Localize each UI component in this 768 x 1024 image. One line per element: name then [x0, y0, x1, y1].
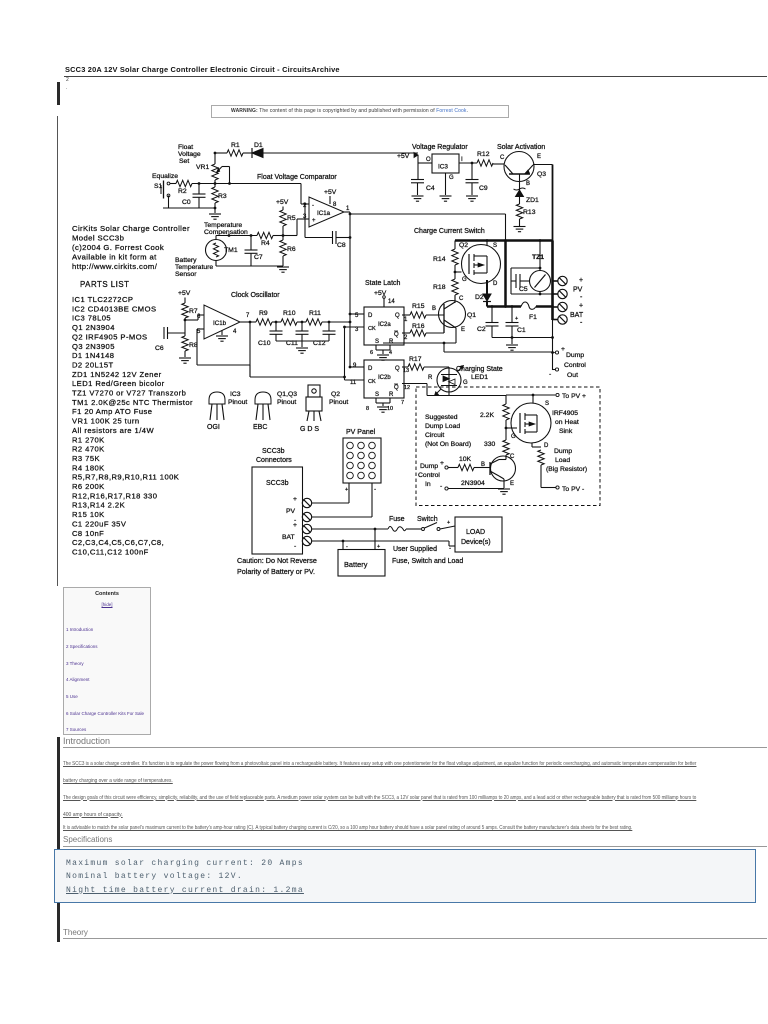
svg-text:R9: R9	[259, 310, 268, 317]
svg-text:CK: CK	[368, 379, 376, 385]
svg-text:8: 8	[333, 202, 337, 208]
svg-text:IC2b: IC2b	[378, 375, 391, 381]
svg-text:R1: R1	[231, 142, 240, 149]
svg-text:BAT: BAT	[282, 534, 295, 541]
svg-text:R: R	[389, 339, 394, 345]
svg-text:PV Panel: PV Panel	[346, 429, 376, 436]
svg-text:R2: R2	[178, 188, 187, 195]
svg-text:C2: C2	[477, 326, 486, 333]
svg-text:4: 4	[389, 350, 392, 356]
svg-text:R13: R13	[523, 209, 536, 216]
svg-text:C8: C8	[337, 242, 346, 249]
svg-text:+5V: +5V	[178, 290, 191, 297]
svg-text:Equalize: Equalize	[152, 173, 178, 180]
svg-text:D2 20L15T: D2 20L15T	[72, 360, 114, 369]
svg-text:13: 13	[403, 368, 409, 374]
svg-text:IC2 CD4013BE CMOS: IC2 CD4013BE CMOS	[72, 304, 156, 313]
svg-text:Q2: Q2	[459, 242, 468, 249]
svg-text:TZ1: TZ1	[532, 254, 544, 261]
svg-text:+: +	[293, 522, 297, 529]
svg-text:+: +	[345, 487, 348, 493]
svg-text:R12,R16,R17,R18 330: R12,R16,R17,R18 330	[72, 491, 157, 500]
svg-text:-: -	[580, 294, 583, 301]
svg-text:R4: R4	[261, 240, 270, 247]
svg-text:S: S	[493, 243, 497, 249]
svg-text:C1 220uF 35V: C1 220uF 35V	[72, 519, 127, 528]
svg-text:IC1 TLC2272CP: IC1 TLC2272CP	[72, 295, 133, 304]
svg-text:C7: C7	[254, 254, 263, 261]
svg-text:7: 7	[246, 313, 250, 319]
svg-text:User Supplied: User Supplied	[393, 546, 437, 553]
svg-text:-: -	[549, 371, 551, 378]
svg-text:2.2K: 2.2K	[480, 412, 494, 419]
svg-text:Clock Oscillator: Clock Oscillator	[231, 292, 280, 299]
svg-text:PV: PV	[286, 508, 296, 515]
svg-text:Q: Q	[395, 313, 400, 319]
svg-text:PARTS LIST: PARTS LIST	[80, 280, 129, 289]
svg-text:S: S	[375, 339, 379, 345]
svg-text:1: 1	[404, 317, 408, 323]
svg-text:LOAD: LOAD	[466, 529, 485, 536]
svg-text:CK: CK	[368, 326, 376, 332]
svg-text:R11: R11	[309, 310, 321, 317]
svg-text:Dump: Dump	[554, 448, 572, 455]
svg-text:Dump Load: Dump Load	[425, 423, 460, 430]
svg-text:BAT: BAT	[570, 312, 584, 319]
svg-text:Control: Control	[418, 472, 440, 479]
svg-text:Connectors: Connectors	[256, 457, 292, 464]
svg-text:+: +	[579, 277, 583, 284]
svg-text:R16: R16	[412, 323, 425, 330]
svg-text:Pinout: Pinout	[277, 399, 296, 406]
svg-text:S: S	[545, 401, 549, 407]
svg-text:R6 200K: R6 200K	[72, 482, 105, 491]
svg-text:Fuse, Switch and Load: Fuse, Switch and Load	[392, 558, 463, 565]
svg-text:Sink: Sink	[559, 428, 573, 435]
svg-text:IC1a: IC1a	[317, 210, 331, 217]
svg-text:5: 5	[197, 329, 201, 335]
svg-text:G: G	[462, 277, 467, 283]
svg-text:D: D	[368, 313, 373, 319]
svg-text:Fuse: Fuse	[389, 516, 405, 523]
svg-text:R: R	[389, 392, 394, 398]
svg-text:G: G	[449, 175, 454, 181]
svg-text:+: +	[293, 496, 297, 503]
svg-text:LED1: LED1	[471, 374, 488, 381]
svg-text:Battery: Battery	[344, 560, 368, 569]
svg-text:(Big Resistor): (Big Resistor)	[546, 466, 587, 473]
svg-text:-: -	[374, 486, 376, 493]
svg-text:D1 1N4148: D1 1N4148	[72, 351, 114, 360]
svg-text:330: 330	[484, 441, 496, 448]
svg-text:R5: R5	[287, 215, 296, 222]
svg-text:CirKits Solar Charge Controlle: CirKits Solar Charge Controller	[72, 224, 190, 233]
svg-text:C2,C3,C4,C5,C6,C7,C8,: C2,C3,C4,C5,C6,C7,C8,	[72, 538, 164, 547]
svg-text:R13,R14 2.2K: R13,R14 2.2K	[72, 501, 125, 510]
svg-text:+: +	[377, 544, 380, 550]
svg-text:Dump: Dump	[420, 463, 438, 470]
svg-text:R3: R3	[218, 193, 227, 200]
svg-text:Q: Q	[394, 332, 399, 338]
svg-text:Out: Out	[567, 372, 578, 379]
svg-text:10K: 10K	[459, 456, 472, 463]
svg-text:-: -	[580, 320, 583, 327]
svg-text:ZD1: ZD1	[526, 197, 539, 204]
svg-text:R5,R7,R8,R9,R10,R11 100K: R5,R7,R8,R9,R10,R11 100K	[72, 473, 179, 482]
svg-text:12: 12	[404, 385, 410, 391]
svg-text:G: G	[463, 380, 468, 386]
svg-text:+5V: +5V	[276, 199, 289, 206]
svg-text:R1 270K: R1 270K	[72, 435, 105, 444]
svg-text:PV: PV	[573, 287, 583, 294]
svg-text:+: +	[561, 346, 565, 353]
svg-text:Battery: Battery	[175, 257, 197, 264]
svg-text:TM1: TM1	[224, 247, 238, 254]
svg-text:SCC3b: SCC3b	[262, 448, 285, 455]
svg-text:VR1: VR1	[196, 164, 209, 171]
svg-text:(c)2004 G. Forrest Cook: (c)2004 G. Forrest Cook	[72, 243, 164, 252]
svg-text:Q: Q	[395, 366, 400, 372]
svg-text:+: +	[440, 460, 444, 467]
svg-text:-: -	[440, 483, 442, 490]
svg-text:1: 1	[346, 206, 350, 212]
svg-text:Compensation: Compensation	[204, 229, 248, 236]
svg-text:Q1: Q1	[467, 312, 476, 319]
svg-text:IC3 78L05: IC3 78L05	[72, 314, 111, 323]
svg-text:Temperature: Temperature	[175, 264, 213, 271]
svg-text:Dump: Dump	[566, 352, 584, 359]
svg-text:B: B	[432, 306, 436, 312]
svg-text:ZD1 1N5242 12V Zener: ZD1 1N5242 12V Zener	[72, 370, 162, 379]
svg-text:8: 8	[366, 406, 369, 412]
svg-text:-: -	[312, 203, 314, 209]
svg-text:EBC: EBC	[253, 424, 267, 431]
svg-text:I: I	[461, 157, 463, 163]
svg-text:Q2: Q2	[331, 391, 340, 398]
svg-text:D2: D2	[475, 294, 484, 301]
svg-text:11: 11	[350, 380, 357, 386]
svg-text:Sensor: Sensor	[175, 271, 197, 278]
svg-text:G D S: G D S	[300, 426, 319, 433]
svg-text:To PV +: To PV +	[562, 393, 586, 400]
svg-text:Set: Set	[179, 158, 189, 165]
svg-text:Voltage Regulator: Voltage Regulator	[412, 144, 468, 151]
svg-text:R10: R10	[283, 310, 296, 317]
svg-text:C9: C9	[479, 185, 488, 192]
svg-text:C: C	[510, 454, 515, 460]
svg-text:R2 470K: R2 470K	[72, 445, 105, 454]
svg-text:G: G	[511, 434, 516, 440]
svg-text:TM1 2.0K@25c NTC Thermistor: TM1 2.0K@25c NTC Thermistor	[72, 398, 193, 407]
svg-text:State Latch: State Latch	[365, 280, 401, 287]
svg-text:R18: R18	[433, 284, 446, 291]
svg-text:VR1 100K 25 turn: VR1 100K 25 turn	[72, 417, 140, 426]
svg-text:C1: C1	[517, 327, 526, 334]
svg-text:E: E	[461, 327, 465, 333]
svg-text:R4 180K: R4 180K	[72, 463, 105, 472]
svg-text:To PV -: To PV -	[562, 486, 584, 493]
svg-text:C8 10nF: C8 10nF	[72, 529, 104, 538]
svg-text:6: 6	[370, 350, 373, 356]
svg-text:+: +	[447, 520, 450, 526]
svg-text:Polarity of Battery or PV.: Polarity of Battery or PV.	[237, 567, 315, 576]
svg-text:Q3 2N3905: Q3 2N3905	[72, 342, 115, 351]
svg-text:D1: D1	[254, 142, 263, 149]
svg-text:D: D	[493, 281, 498, 287]
svg-text:2: 2	[404, 335, 408, 341]
svg-text:IRF4905: IRF4905	[552, 410, 578, 417]
svg-text:Switch: Switch	[417, 516, 438, 523]
svg-text:R6: R6	[287, 246, 296, 253]
svg-text:Charge Current Switch: Charge Current Switch	[414, 228, 485, 235]
svg-text:R14: R14	[433, 256, 446, 263]
svg-text:http://www.cirkits.com/: http://www.cirkits.com/	[72, 262, 158, 271]
svg-text:-: -	[294, 543, 296, 550]
svg-text:D: D	[368, 366, 373, 372]
svg-text:+: +	[515, 316, 518, 322]
svg-text:O: O	[426, 157, 431, 163]
svg-text:R: R	[428, 375, 433, 381]
svg-text:10: 10	[387, 406, 393, 412]
svg-text:F1: F1	[529, 314, 537, 321]
svg-text:C: C	[500, 155, 505, 161]
svg-text:3: 3	[355, 327, 359, 333]
svg-text:IC3: IC3	[438, 164, 448, 171]
svg-text:Circuit: Circuit	[425, 432, 444, 439]
svg-text:C10: C10	[258, 340, 271, 347]
svg-text:C4: C4	[426, 185, 435, 192]
svg-text:on Heat: on Heat	[555, 419, 579, 426]
svg-text:Q2 IRF4905 P-MOS: Q2 IRF4905 P-MOS	[72, 332, 148, 341]
svg-text:Charging State: Charging State	[456, 366, 503, 373]
svg-text:R12: R12	[477, 151, 490, 158]
svg-text:OGI: OGI	[207, 424, 220, 431]
svg-text:Load: Load	[555, 457, 570, 464]
svg-text:C6: C6	[155, 345, 164, 352]
svg-text:Control: Control	[564, 362, 586, 369]
svg-text:Float Voltage Comparator: Float Voltage Comparator	[257, 174, 337, 181]
svg-text:IC2a: IC2a	[378, 322, 391, 328]
svg-text:R3 75K: R3 75K	[72, 454, 100, 463]
svg-text:B: B	[526, 181, 530, 187]
svg-text:7: 7	[401, 400, 404, 406]
svg-text:Suggested: Suggested	[425, 414, 458, 421]
svg-text:Float: Float	[178, 144, 193, 151]
svg-text:Temperature: Temperature	[204, 222, 242, 229]
svg-text:C: C	[459, 296, 464, 302]
svg-text:In: In	[425, 481, 431, 488]
svg-text:Q1 2N3904: Q1 2N3904	[72, 323, 115, 332]
svg-text:D: D	[544, 443, 549, 449]
svg-text:R17: R17	[409, 356, 422, 363]
svg-text:(Not On Board): (Not On Board)	[425, 441, 471, 448]
svg-text:R15 10K: R15 10K	[72, 510, 105, 519]
svg-text:2N3904: 2N3904	[461, 480, 485, 487]
svg-text:+5V: +5V	[397, 153, 410, 160]
svg-text:IC3: IC3	[230, 391, 241, 398]
svg-text:14: 14	[388, 299, 395, 305]
svg-text:SCC3b: SCC3b	[266, 480, 289, 487]
svg-text:+: +	[312, 218, 316, 224]
svg-text:Solar Activation: Solar Activation	[497, 144, 545, 151]
svg-text:E: E	[510, 481, 514, 487]
svg-text:IC1b: IC1b	[213, 320, 227, 327]
svg-text:S: S	[375, 392, 379, 398]
svg-text:TZ1 V7270 or V727 Transzorb: TZ1 V7270 or V727 Transzorb	[72, 389, 186, 398]
svg-text:R15: R15	[412, 303, 425, 310]
svg-text:+: +	[579, 303, 583, 310]
svg-text:Caution: Do Not Reverse: Caution: Do Not Reverse	[237, 556, 317, 565]
svg-text:Q: Q	[394, 385, 399, 391]
svg-text:Model SCC3b: Model SCC3b	[72, 234, 124, 243]
svg-text:E: E	[537, 154, 541, 160]
svg-text:C0: C0	[182, 199, 191, 206]
svg-text:Q1,Q3: Q1,Q3	[277, 391, 297, 398]
svg-text:Pinout: Pinout	[329, 399, 348, 406]
svg-text:C5: C5	[519, 286, 528, 293]
svg-text:All resistors are 1/4W: All resistors are 1/4W	[72, 426, 154, 435]
svg-text:Pinout: Pinout	[228, 399, 247, 406]
svg-text:Device(s): Device(s)	[461, 539, 491, 546]
svg-text:-: -	[346, 544, 348, 550]
svg-text:Voltage: Voltage	[178, 151, 201, 158]
svg-text:Q3: Q3	[537, 171, 546, 178]
svg-text:Available in kit form at: Available in kit form at	[72, 253, 157, 262]
svg-text:+5V: +5V	[324, 189, 337, 196]
svg-text:F1 20 Amp ATO Fuse: F1 20 Amp ATO Fuse	[72, 407, 152, 416]
svg-text:4: 4	[233, 329, 237, 335]
svg-text:9: 9	[353, 363, 357, 369]
svg-text:LED1 Red/Green bicolor: LED1 Red/Green bicolor	[72, 379, 165, 388]
svg-text:C10,C11,C12 100nF: C10,C11,C12 100nF	[72, 547, 149, 556]
